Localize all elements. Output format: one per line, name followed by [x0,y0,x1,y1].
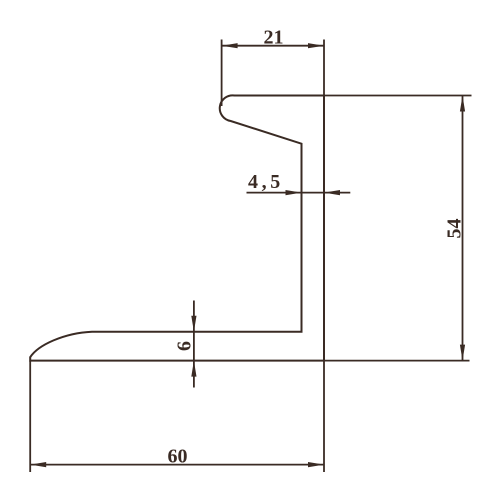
extension line: left of dim 21 (x=221.6) [221,40,223,107]
arrowhead 60 right [308,462,324,467]
svg-text:21: 21 [264,27,284,49]
dimension line 54 [462,96,464,361]
arrowhead 4,5 left (points right, tip at inner web edge) [286,190,302,195]
svg-text:54: 54 [444,219,466,239]
profile outline (aluminium extrusion cross-section) [30,95,324,360]
extension line: top edge extended right for dim 54 [324,95,472,97]
dimension line 6 (arrows outside) [193,301,195,388]
arrowhead 54 bottom [460,345,465,361]
extension line: right outer edge extended (x=324, full height) [323,40,325,473]
arrowhead 6 bottom (points up, tip at flange bottom) [191,361,196,377]
arrowhead 21 right [308,43,324,48]
dimension line 60 [30,464,324,466]
arrowhead 4,5 right (points left, tip at outer web edge) [324,190,340,195]
svg-text:60: 60 [168,446,188,468]
svg-text:6: 6 [174,341,196,351]
dimension line 21 [222,45,324,47]
dimension line 4,5 [247,192,351,194]
arrowhead 6 top (points down, tip at flange top) [191,316,196,332]
arrowhead 21 left [222,43,238,48]
arrowhead 54 top [460,96,465,112]
extension line: flange bottom extended right for dim 54 [324,360,470,362]
arrowhead 60 left [30,462,46,467]
extension line: left of dim 60 (x=30.2) [29,361,31,472]
svg-text:4,5: 4,5 [248,171,284,193]
